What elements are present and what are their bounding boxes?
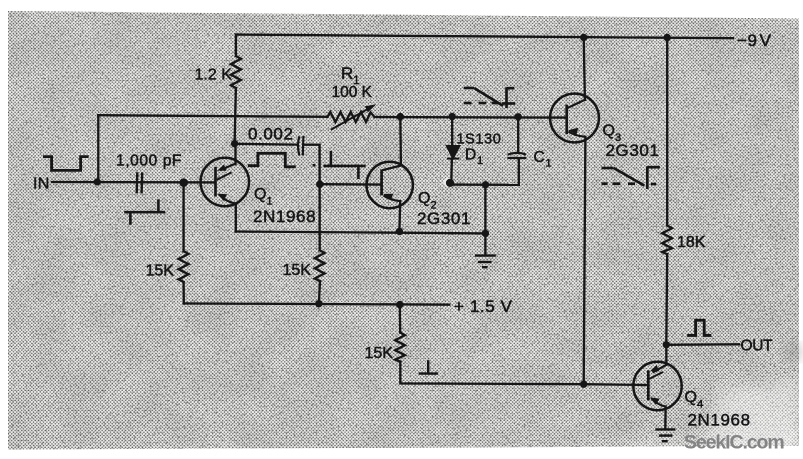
- wire IN horizontal: [52, 181, 215, 184]
- node rail D1: [449, 113, 456, 120]
- wire Q2 collector vertical: [399, 117, 402, 166]
- transistor Q4: [633, 362, 681, 410]
- svg-text:−9V: −9V: [737, 31, 772, 50]
- wire ground1 vertical: [484, 185, 486, 255]
- wire 0.002 left: [235, 143, 298, 146]
- node OUT tap: [663, 341, 670, 348]
- svg-text:1: 1: [477, 155, 484, 167]
- wire 15K3 bottom to rail: [400, 362, 583, 384]
- svg-text:1,000 pF: 1,000 pF: [116, 153, 182, 170]
- node after 1000pF: [179, 178, 188, 187]
- node bottom rail Q4 base: [580, 381, 587, 388]
- wire Q2 emitter vertical: [398, 201, 401, 231]
- waveform sawtooth below Q3: [602, 166, 660, 189]
- node rail C1: [515, 113, 522, 120]
- svg-text:R: R: [341, 64, 354, 83]
- waveform positive pulse at OUT: [687, 320, 711, 335]
- wire left 15K bottom vertical: [182, 282, 185, 303]
- wire left 15K top vertical: [182, 183, 184, 252]
- transistor Q2: [367, 162, 413, 208]
- waveform step near 1000pF: [124, 199, 165, 224]
- wire rail y232: [236, 232, 486, 234]
- wire OUT: [666, 343, 739, 346]
- svg-text:2N1968: 2N1968: [253, 207, 316, 226]
- waveform IN negative pulse: [43, 157, 89, 171]
- svg-text:15K: 15K: [146, 263, 175, 280]
- svg-text:15K: 15K: [365, 345, 394, 362]
- node D1 bottom corner: [446, 179, 454, 187]
- node top rail 18K: [664, 34, 671, 41]
- svg-text:0.002: 0.002: [248, 125, 294, 144]
- node rail R1 Q2 collector: [397, 113, 404, 120]
- scan smudge right edge: [783, 344, 803, 360]
- node rail304 15K3: [396, 301, 403, 308]
- ground below Q4: [655, 429, 675, 441]
- resistor 18K body: [662, 226, 672, 255]
- waveform positive pulse above Q1: [248, 153, 296, 167]
- node IN branch: [94, 178, 101, 185]
- wire 15K3 top vertical: [399, 305, 402, 333]
- resistor R 1.2K leads: [235, 35, 237, 56]
- wire Q2 base: [320, 183, 381, 186]
- node Q2 base tap: [316, 181, 323, 188]
- node 1.2K Q1 0.002: [231, 140, 238, 147]
- svg-text:1: 1: [546, 158, 553, 170]
- wire Q3 collector vertical long: [584, 137, 586, 384]
- transistor Q1: [201, 158, 249, 206]
- capacitor 1000pF: [137, 172, 143, 193]
- wire -9V top rail: [236, 35, 733, 39]
- wire Q3 emitter vertical: [584, 37, 585, 99]
- svg-text:2G301: 2G301: [606, 141, 660, 160]
- wire D1 C1 bottom horizontal: [451, 183, 519, 186]
- wire Q4 base: [584, 383, 647, 386]
- wire mid rail right of R1: [375, 116, 567, 119]
- wire bottom rail y304: [184, 303, 450, 304]
- wire C1 bottom vertical: [518, 158, 520, 185]
- node rail232 ground: [482, 230, 489, 237]
- svg-text:C: C: [534, 149, 546, 166]
- svg-text:2N1968: 2N1968: [688, 411, 751, 430]
- svg-text:Q: Q: [603, 123, 616, 140]
- svg-text:1S130: 1S130: [457, 132, 502, 148]
- wire C1 top vertical: [517, 117, 519, 152]
- wire Q4 collector vertical: [665, 345, 667, 365]
- waveform sawtooth above D1: [464, 88, 516, 109]
- waveform step near Q2: [313, 151, 366, 179]
- svg-text:4: 4: [697, 399, 704, 411]
- node top rail Q3: [580, 34, 587, 41]
- capacitor 0.002: [298, 136, 303, 156]
- resistor R1 wiper arrow: [331, 104, 376, 129]
- wire Q4 emitter vertical: [664, 407, 667, 430]
- wire 0.002 right to corner: [303, 145, 319, 251]
- svg-text:1.2 K: 1.2 K: [195, 67, 233, 84]
- svg-text:D: D: [465, 147, 477, 164]
- wire D1 cathode vertical: [450, 158, 453, 181]
- wire Q1 collector vertical: [235, 203, 237, 231]
- svg-text:OUT: OUT: [741, 338, 774, 355]
- resistor R1 100K body horizontal: [328, 112, 375, 122]
- wire D1 anode vertical: [451, 117, 453, 147]
- svg-text:1: 1: [267, 196, 274, 208]
- node junction dots: [94, 34, 671, 388]
- node mid15K bottom rail: [315, 300, 322, 307]
- svg-text:+ 1.5 V: + 1.5 V: [454, 297, 513, 316]
- svg-text:Q: Q: [685, 389, 698, 406]
- wire below mid 15K to bottom rail: [319, 281, 320, 304]
- wire IN branch vertical: [97, 115, 99, 182]
- svg-text:2G301: 2G301: [417, 209, 471, 228]
- svg-text:Q: Q: [418, 190, 431, 207]
- svg-text:15K: 15K: [283, 262, 312, 279]
- svg-text:18K: 18K: [677, 234, 706, 251]
- wire mid rail left of R1: [98, 115, 327, 117]
- svg-text:Q: Q: [254, 186, 267, 203]
- node Q2 emitter rail: [396, 228, 403, 235]
- capacitor C1: [507, 153, 526, 158]
- svg-text:IN: IN: [33, 176, 50, 193]
- ground ref mark near 15K3: [419, 360, 439, 373]
- resistor 15K3 body: [395, 333, 405, 362]
- resistor 15K mid body: [315, 250, 325, 281]
- ground below D1 C1: [475, 256, 496, 268]
- light patch bottom right: [618, 378, 800, 459]
- node ground1 top: [482, 181, 489, 188]
- halo at D1 corner: [443, 178, 452, 187]
- wire 18K bottom vertical: [665, 254, 668, 345]
- svg-text:100 K: 100 K: [332, 84, 373, 101]
- wire Q1 emitter vertical: [234, 144, 236, 164]
- resistor R 1.2K body: [231, 56, 241, 88]
- wire 18K top vertical: [666, 38, 668, 226]
- svg-text:SeekIC.com: SeekIC.com: [684, 432, 784, 454]
- transistor Q3: [550, 94, 599, 143]
- diode D1: [447, 146, 460, 159]
- resistor 15K left body: [179, 251, 189, 282]
